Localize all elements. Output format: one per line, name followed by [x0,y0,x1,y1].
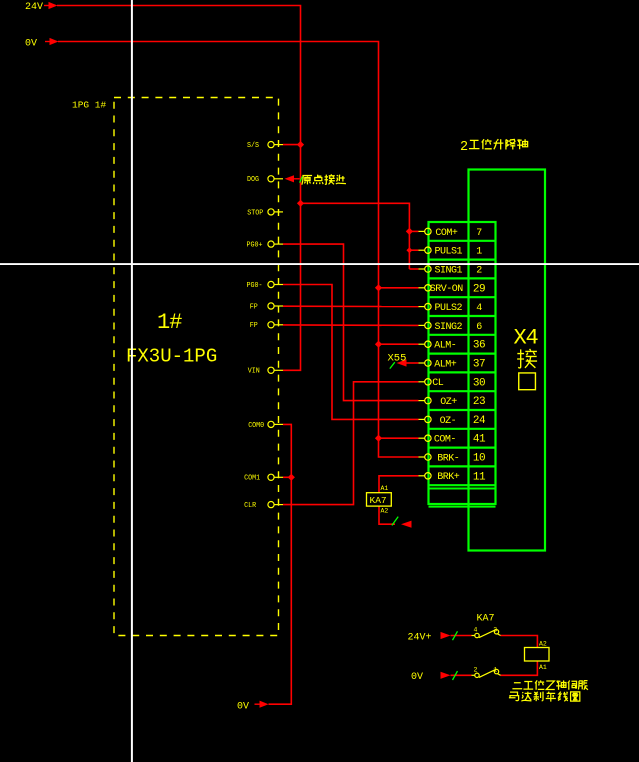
svg-text:KA7: KA7 [477,613,495,624]
svg-text:2: 2 [476,266,482,277]
wire 0V rail: 0V entry to SRV-ON, ALM-, COM-, BRK- [58,42,419,458]
pin COM1 of FX3U-1PG [244,474,283,483]
arrow DOG origin-proximity input [285,175,300,182]
junction SRV-ON on 0V rail [375,284,382,291]
pin CLR of FX3U-1PG [244,502,283,511]
X4 pin CL number 30 [419,377,486,389]
X4 pin OZ- number 24 [419,415,486,427]
pin STOP of FX3U-1PG [247,209,283,218]
FX3U-1PG module dashed box 1PG 1# [114,98,279,636]
wire COM0/COM1 to bottom 0V [269,424,292,704]
svg-text:A1: A1 [539,664,547,671]
svg-text:COM1: COM1 [244,475,260,483]
svg-text:PULS1: PULS1 [435,247,463,258]
crosshair horizontal line [0,263,639,265]
svg-text:CL: CL [432,378,444,389]
svg-text:OZ+: OZ+ [440,397,457,408]
svg-text:6: 6 [476,322,482,333]
svg-text:PG0+: PG0+ [247,242,263,250]
svg-text:23: 23 [473,396,485,408]
svg-text:4: 4 [476,303,482,314]
svg-text:OZ-: OZ- [440,416,457,427]
arrow 24V entry [44,2,58,9]
arrow 0V entry [45,38,59,45]
svg-text:7: 7 [476,228,482,239]
wire FP to PULS2 [283,305,419,307]
svg-text:COM0: COM0 [248,422,264,430]
svg-text:X4: X4 [514,326,539,351]
svg-text:1#: 1# [157,310,182,335]
X4 pin PULS2 number 4 [419,303,483,314]
svg-text:1PG 1#: 1PG 1# [72,100,107,111]
svg-text:COM-: COM- [434,435,456,446]
svg-text:A2: A2 [539,640,547,647]
X4 pin SING2 number 6 [419,322,483,333]
svg-text:FX3U-1PG: FX3U-1PG [126,346,217,368]
svg-text:10: 10 [473,453,485,465]
svg-text:ALM-: ALM- [434,341,456,352]
svg-text:30: 30 [473,377,485,389]
crosshair vertical line [131,0,133,762]
svg-text:2: 2 [474,666,478,673]
X4 pin ALM- number 36 [419,340,486,352]
brake coil box [525,648,550,662]
slash X55 [390,362,395,368]
svg-text:CLR: CLR [244,502,257,510]
svg-text:A2: A2 [381,507,389,514]
wire CL to CLR [283,382,419,505]
wire 24V+ to contact KA7 [451,636,538,648]
svg-text:SRV-ON: SRV-ON [430,284,464,295]
svg-text:36: 36 [473,340,485,352]
wire PG0+ to OZ+ [283,244,419,401]
arrow bottom 0V [255,701,269,708]
svg-text:3: 3 [493,627,497,634]
junction COM1 [288,474,295,481]
X4 pin OZ+ number 23 [419,396,486,408]
X4 pin SING1 number 2 [419,265,483,276]
svg-text:PULS2: PULS2 [435,303,463,314]
svg-text:0V: 0V [25,38,37,49]
contact KA7 pole 2-1 [472,669,501,677]
wire ALM+ stub to X55 [407,362,419,364]
svg-text:1: 1 [476,247,482,258]
wire BRK+ to relay coil KA7 [379,476,419,524]
svg-text:DOG: DOG [247,176,259,184]
slash 24V+ wire [453,631,458,640]
svg-text:BRK-: BRK- [437,453,459,464]
svg-text:COM+: COM+ [435,228,458,239]
pin VIN of FX3U-1PG [248,367,283,376]
X4 pin SRV-ON number 29 [419,283,486,295]
wire 24V rail: 24V entry to S/S junction, COM+ branch, VIN [57,6,301,371]
svg-text:4: 4 [474,627,478,634]
X4 pin BRK- number 10 [419,453,486,465]
svg-text:SING2: SING2 [435,322,463,333]
contact KA7 pole 4-3 [472,629,501,637]
svg-text:SING1: SING1 [435,265,463,276]
X4 signal table frame [429,222,496,507]
svg-text:FP: FP [250,322,258,330]
svg-text:KA7: KA7 [370,495,387,506]
pin COM0 of FX3U-1PG [248,421,283,430]
junction at S/S on 24V rail [297,141,304,148]
arrow KA7 A2 off-page [401,521,412,528]
svg-text:2: 2 [460,140,468,155]
svg-text:ALM+: ALM+ [434,359,457,370]
svg-text:1: 1 [493,666,497,673]
svg-text:S/S: S/S [247,142,259,150]
svg-text:24V+: 24V+ [408,632,432,643]
pin PG0- of FX3U-1PG [247,281,284,290]
wire-number slash at DOG [300,176,303,182]
svg-text:0V: 0V [237,701,249,712]
svg-text:X55: X55 [388,353,407,365]
svg-text:11: 11 [473,471,486,483]
wire branch 24V to COM+/PULS1/SING1 [301,203,419,269]
svg-text:BRK+: BRK+ [437,472,460,483]
label 二工位Z轴伺服马达刹车线圈 [512,683,522,689]
junction ALM- on 0V rail [375,341,382,348]
junction PULS1 branch [406,247,412,253]
pin PG0+ of FX3U-1PG [247,241,284,250]
X4 pin PULS1 number 1 [419,247,483,258]
wire PG0- to OZ- [283,285,419,420]
wire 0V to contact KA7 [451,661,538,675]
svg-text:FP: FP [250,303,258,311]
wire S/S to 24V rail [283,144,301,146]
arrow 0V entry bottom right [441,672,451,679]
svg-text:37: 37 [473,359,485,371]
pin S/S of FX3U-1PG [247,142,283,151]
svg-text:24: 24 [473,415,486,427]
svg-text:41: 41 [473,434,486,446]
relay coil KA7 [367,493,392,507]
label 原点接近 [302,176,312,185]
wire FP to SING2 [283,324,419,327]
X4 pin COM- number 41 [419,434,486,446]
pin FP of FX3U-1PG [250,303,283,312]
svg-text:24V: 24V [25,2,43,13]
svg-text:29: 29 [473,283,485,295]
X4 connector interface outer box [469,170,546,551]
junction 24V rail to connector branch [297,200,304,207]
pin FP of FX3U-1PG [250,322,283,331]
svg-text:A1: A1 [381,485,389,492]
arrow X55 [397,359,407,366]
svg-text:PG0-: PG0- [247,282,263,290]
slash 0V wire [453,671,458,680]
X4 pin ALM+ number 37 [419,359,486,371]
pin DOG of FX3U-1PG [247,176,283,185]
svg-text:VIN: VIN [248,368,260,376]
junction COM- on 0V rail [375,435,382,442]
junction COM+ branch [406,228,413,235]
arrow 24V+ entry [441,632,451,639]
svg-text:STOP: STOP [247,209,263,217]
svg-text:0V: 0V [411,672,423,683]
X4 pin COM+ number 7 [419,228,483,239]
X4 pin BRK+ number 11 [419,471,486,483]
slash KA7 A2 [392,517,398,526]
